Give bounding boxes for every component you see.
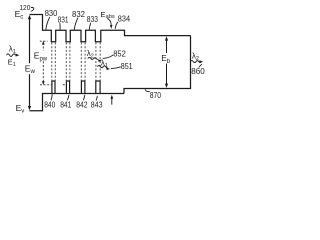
photon λ2 wavy arrow: [88, 57, 98, 59]
right contact box right edge and bottom line: [124, 36, 191, 94]
photon λ1 incoming wavy arrow: [7, 54, 16, 57]
valence well 841: [66, 81, 69, 94]
svg-text:870: 870: [150, 90, 161, 100]
valence well 840: [52, 81, 55, 94]
svg-text:843: 843: [91, 99, 103, 109]
label Epw: [34, 51, 48, 61]
svg-text:120: 120: [19, 3, 30, 12]
energy axis with arrowheads: [29, 18, 31, 109]
dashed well-edge guide lines: [52, 43, 100, 81]
valence well 842: [81, 81, 85, 94]
dashed level line at conduction well bottom: [40, 40, 48, 42]
svg-text:833: 833: [87, 14, 98, 24]
svg-text:852: 852: [113, 48, 126, 58]
svg-text:832: 832: [72, 9, 85, 19]
valence well 843: [96, 81, 100, 94]
Eb measurement arrow: [166, 39, 168, 53]
valence band base line: [30, 94, 125, 111]
svg-text:841: 841: [60, 99, 71, 109]
conduction band edge outline: [30, 15, 191, 42]
dashed level line at valence well top: [40, 84, 52, 86]
svg-text:842: 842: [76, 99, 88, 109]
label Ew on axis: [25, 63, 35, 74]
svg-text:831: 831: [58, 14, 69, 24]
valence-side up arrow: [111, 98, 113, 104]
svg-text:830: 830: [45, 8, 58, 18]
photon λ2 output wavy arrow: [190, 60, 200, 62]
svg-text:840: 840: [44, 99, 55, 109]
svg-text:851: 851: [121, 61, 133, 71]
Epw dashed measurement arrow: [42, 43, 44, 84]
svg-text:860: 860: [191, 66, 205, 76]
svg-text:834: 834: [118, 14, 130, 24]
photon λ1 wavy arrow: [97, 65, 107, 67]
